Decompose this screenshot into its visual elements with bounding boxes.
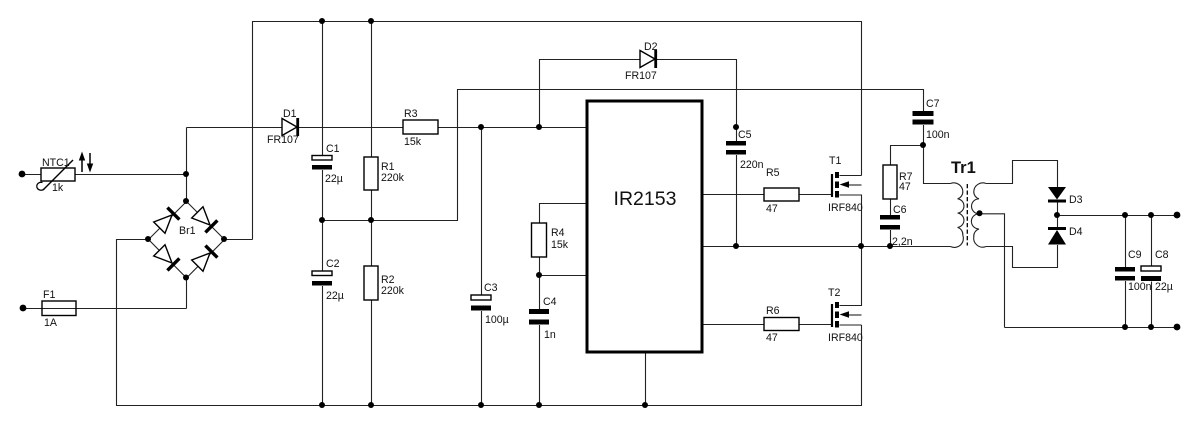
wire: IC ground pin [645,353,647,406]
capacitor C8 22u electrolytic [1141,266,1161,281]
node: C7/R7 junction [920,142,926,148]
svg-text:IR2153: IR2153 [614,188,677,210]
capacitor C7 100n [913,111,934,125]
wire: output top rail y=215 [1058,215,1178,217]
svg-text:1A: 1A [44,317,58,329]
resistor R1 220k [364,157,378,190]
NTC1 up arrow [79,152,85,173]
svg-text:FR107: FR107 [267,134,299,146]
transformer Tr1 secondary winding [971,183,986,247]
Br1 diode left-top [154,215,172,233]
capacitor C5 220n [726,141,746,155]
wire: C5 column [736,128,738,142]
wire: IC LO pin to R6 [703,324,765,326]
wire: T1 body link [849,184,862,186]
Br1 diode left-bottom [154,245,172,263]
node: D3/D4 output junction [1054,212,1060,218]
NTC1 down arrow [87,153,93,173]
wire: NTC1 input lead [23,174,42,176]
svg-text:IRF840: IRF840 [828,202,863,214]
wire: R5 to T1 gate [800,194,833,196]
node: output terminal plus [1174,212,1181,219]
wire: bridge left node to bottom rail [117,240,862,406]
diode D3 [1048,187,1066,201]
capacitor C2 22u electrolytic [312,271,332,286]
node: D2 anode junction [536,124,542,130]
svg-text:220k: 220k [381,285,405,297]
wire: D3 cathode to output node [1057,200,1059,229]
node: C2 bottom rail junction [319,402,325,408]
node: C3 bottom rail junction [478,402,484,408]
wire: IC HO pin to R5 [703,194,765,196]
wire: R6 to T2 gate [800,324,833,326]
node: C1 top rail junction [319,18,325,24]
svg-text:T1: T1 [829,155,841,167]
node: C1/C2 midpoint [319,217,325,223]
svg-text:22µ: 22µ [1155,281,1173,293]
Br1 arm wire left-top [149,202,187,240]
svg-text:C7: C7 [926,98,940,110]
wire: R4 bottom lead [539,258,541,276]
diode D1 FR107 [282,118,298,136]
svg-text:R6: R6 [766,305,780,317]
svg-text:C1: C1 [326,143,340,155]
svg-text:220n: 220n [740,159,764,171]
wire: R4 top lead [540,204,588,224]
Br1 arm wire top-right [187,202,225,240]
svg-text:C8: C8 [1155,249,1169,261]
svg-text:22µ: 22µ [325,173,343,185]
resistor R2 220k [364,266,378,300]
node: R1/R2 midpoint [368,217,374,223]
wire: D4 anode to secondary bottom [986,245,1058,268]
svg-text:Tr1: Tr1 [951,159,976,177]
fuse F1 [42,301,76,316]
node: C5 bottom / Vs junction [733,243,739,249]
node: bridge bottom [183,275,189,281]
wire: R7 branch top [891,146,924,166]
svg-text:C6: C6 [893,204,907,216]
capacitor C4 1n [529,309,549,325]
Br1 arm wire left-bottom [149,240,187,279]
svg-text:R3: R3 [404,108,418,120]
wire: fuse row riser to bridge bottom [186,278,188,309]
resistor R7 47 [883,165,897,199]
svg-text:1k: 1k [52,182,64,194]
node: AC input terminal bottom [20,305,27,312]
svg-text:1n: 1n [544,329,556,341]
wire: C6 to midpoint rail [890,230,892,247]
svg-text:D3: D3 [1069,194,1083,206]
node: CT pin junction [536,272,542,278]
svg-text:D4: D4 [1069,226,1083,238]
svg-text:T2: T2 [828,287,840,299]
diode D2 FR107 [640,50,656,68]
node: C3 Vcc junction [478,124,484,130]
node: IC ground rail junction [642,402,648,408]
wire: T1 source lead [840,195,862,247]
resistor R5 47 [764,188,799,201]
svg-text:D2: D2 [644,41,658,53]
svg-text:C3: C3 [484,282,498,294]
node: bridge right [221,236,227,242]
node: NTC/D1 junction [183,171,189,177]
node: R1 top rail junction [368,18,374,24]
svg-text:FR107: FR107 [625,70,657,82]
wire: C1 column [322,22,324,157]
node: output terminal minus [1174,324,1181,331]
svg-text:D1: D1 [283,108,297,120]
node: secondary centre tap [977,210,983,216]
svg-text:C9: C9 [1128,249,1142,261]
svg-text:R5: R5 [766,167,780,179]
svg-text:47: 47 [899,181,911,193]
wire: output bottom rail y=327 [1005,327,1178,329]
node: C8 top junction [1148,212,1154,218]
wire: R1/R2 column [371,22,373,158]
transistor T2 IRF840 [832,302,849,328]
svg-text:NTC1: NTC1 [42,157,70,169]
resistor R4 15k [532,223,547,257]
wire: T2 drain lead [840,247,862,306]
svg-text:100n: 100n [926,129,950,141]
wire: C3 column [481,128,483,296]
node: C4 bottom rail junction [536,402,542,408]
wire: top rail y=21 [253,22,862,240]
wire: vertical AC branch x=186 (D1 row to bridge top) [186,128,188,202]
Br1 diode bottom-right [192,253,210,271]
wire: R7 to C6 [890,200,892,216]
svg-text:F1: F1 [43,289,55,301]
node: C6 junction [887,243,893,249]
capacitor C1 22u electrolytic [312,156,332,170]
resistor R6 47 [764,318,799,331]
transformer Tr1 primary winding [951,183,964,248]
wire: T2 body link [849,314,862,316]
op-amp U1 IR2153 IC body [587,101,702,352]
Br1 arm wire bottom-right [187,240,225,279]
node: bridge top [183,198,189,204]
svg-text:22µ: 22µ [326,290,344,302]
svg-text:2,2n: 2,2n [892,236,913,248]
diode D4 [1048,229,1066,245]
wire: bridge right node to top-rail riser [225,239,253,241]
node: C8 bottom junction [1148,324,1154,330]
svg-text:47: 47 [766,332,778,344]
svg-text:C5: C5 [738,129,752,141]
wire: divider midpoint line y=220 to half-bridge return rail y=89 [323,90,924,221]
Br1 diode top-right [192,207,210,225]
svg-text:15k: 15k [551,239,569,251]
svg-text:Br1: Br1 [179,225,196,237]
svg-text:IRF840: IRF840 [828,332,863,344]
resistor R3 15k [403,120,438,134]
node: C9 bottom junction [1122,324,1128,330]
svg-text:15k: 15k [404,136,422,148]
node: half-bridge midpoint [858,243,864,249]
svg-text:C2: C2 [326,258,340,270]
svg-text:100n: 100n [1128,281,1152,293]
transformer Tr1 core [966,184,968,246]
wire: half-bridge midpoint rail y=246 [703,246,951,248]
node: R2 bottom rail junction [368,402,374,408]
bridge rectifier Br1 [149,202,225,279]
node: AC input terminal top [19,171,26,178]
thermistor NTC1 [37,160,75,190]
wire: T1 drain lead [840,175,862,177]
capacitor C6 2.2n [880,215,900,230]
transistor T1 IRF840 [832,172,849,198]
wire: T2 source lead [840,324,862,326]
svg-text:220k: 220k [381,172,405,184]
wire: secondary centre tap lead [979,214,1005,328]
wire: D2 bootstrap loop y=59 [540,60,737,128]
wire: R3 to IC pin row y=127 [439,127,588,129]
wire: CT node link to IC [540,275,588,277]
node: bridge left [145,236,151,242]
svg-text:100µ: 100µ [485,314,509,326]
capacitor C3 100u electrolytic [471,295,491,311]
wire: C7 to primary top [924,125,951,184]
wire: C9 column [1125,216,1127,268]
node: C9 top junction [1122,212,1128,218]
wire: secondary top lead to D3 [986,161,1058,188]
wire: C4 column [539,276,541,310]
svg-text:47: 47 [766,203,778,215]
svg-text:C4: C4 [543,296,557,308]
svg-text:R4: R4 [551,227,565,239]
wire: D1 row y=127 [187,127,404,129]
wire: C8 column [1151,216,1153,267]
node: D2 cathode / C5 junction [733,124,739,130]
wire: F1 input lead and fuse row [24,308,187,310]
capacitor C9 100n [1115,267,1135,281]
wire: NTC1 to AC node [76,174,187,176]
